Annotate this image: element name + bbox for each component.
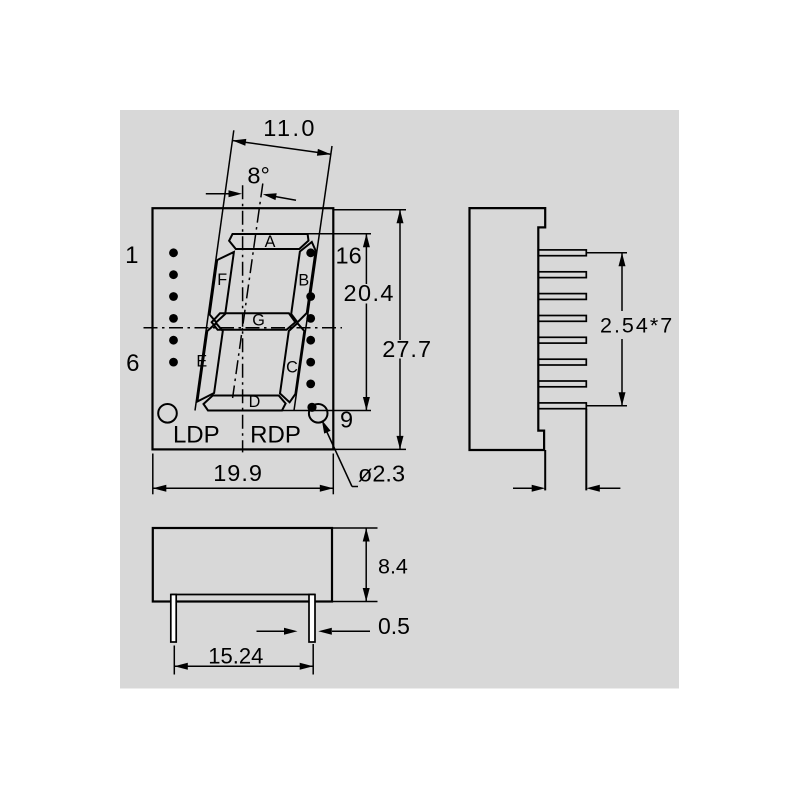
- vertical centerline: [242, 185, 244, 452]
- dim 0.5 left arrow: [257, 630, 285, 632]
- dim 11.0 right extension line: [294, 146, 332, 411]
- svg-text:F: F: [217, 271, 227, 289]
- dim 2.54x7 dimension line: [621, 253, 623, 311]
- LDP circle: [158, 404, 177, 423]
- side view pin width left arrow: [513, 487, 533, 489]
- gray drawing panel: [120, 110, 679, 689]
- side view pins 1-8: [538, 250, 586, 409]
- segment B: [291, 242, 315, 322]
- svg-text:G: G: [252, 312, 265, 330]
- dim 15.24 left extension line: [173, 646, 175, 675]
- dim 19.9 left extension line: [152, 454, 154, 495]
- dim 8.4 dimension line: [365, 528, 367, 602]
- svg-text:27.7: 27.7: [382, 336, 432, 362]
- side view body outline: [470, 208, 546, 450]
- svg-text:19.9: 19.9: [213, 460, 263, 486]
- svg-text:16: 16: [336, 242, 362, 268]
- dim 2.54x7 bottom extension line: [586, 405, 627, 407]
- svg-text:1: 1: [125, 242, 138, 269]
- svg-text:B: B: [298, 272, 309, 290]
- segment G: [212, 313, 296, 330]
- segment F: [210, 252, 234, 322]
- bottom view inner bottom line: [171, 594, 315, 596]
- front view right pin dots (pins 16 and 13-10): [306, 248, 315, 388]
- dim 15.24 dimension line: [174, 665, 313, 667]
- segment C: [280, 323, 304, 402]
- bottom view right pin: [309, 595, 315, 643]
- bottom view left pin: [171, 595, 176, 643]
- segment D: [204, 396, 286, 411]
- svg-text:RDP: RDP: [250, 421, 301, 448]
- svg-text:8°: 8°: [247, 162, 269, 188]
- dim 8.4 top extension line: [333, 527, 378, 529]
- dim 20.4 top extension line: [233, 233, 372, 235]
- svg-text:ø2.3: ø2.3: [358, 460, 405, 486]
- svg-text:6: 6: [126, 350, 139, 377]
- bottom view body outline: [153, 528, 332, 602]
- slanted digit centerline: [233, 184, 263, 399]
- svg-text:2.54*7: 2.54*7: [600, 314, 674, 338]
- segment E: [197, 323, 222, 401]
- dim 2.54x7 top extension line: [586, 252, 627, 254]
- svg-text:D: D: [249, 393, 261, 411]
- svg-text:LDP: LDP: [173, 421, 220, 448]
- dim 27.7 bottom extension line: [333, 448, 406, 450]
- dim 19.9 right extension line: [332, 454, 334, 495]
- dim dia2.3 leader line: [326, 430, 352, 487]
- dim 20.4 bottom extension line: [208, 410, 371, 412]
- RDP circle: [309, 404, 328, 423]
- side view bent pin left edge: [544, 450, 546, 490]
- svg-text:11.0: 11.0: [263, 115, 317, 141]
- pin 9 dot: [307, 403, 316, 412]
- front view package outline: [153, 208, 334, 449]
- dim 27.7 top extension line: [333, 209, 406, 211]
- horizontal centerline: [144, 327, 343, 329]
- dim 11.0 dimension line: [232, 141, 330, 155]
- side view pin width right arrow: [598, 487, 620, 489]
- dim 19.9 dimension line: [153, 487, 333, 489]
- svg-text:A: A: [265, 233, 276, 251]
- svg-text:C: C: [286, 359, 298, 377]
- svg-text:20.4: 20.4: [344, 280, 395, 306]
- dim 20.4 dimension line: [365, 234, 367, 284]
- front view left pin dots (pins 1-6): [169, 248, 178, 366]
- side view bent pin right edge: [585, 409, 587, 491]
- dim 8deg left arrow: [206, 193, 230, 195]
- dim 27.7 dimension line: [399, 210, 401, 340]
- dim 8.4 bottom extension line: [333, 601, 378, 603]
- svg-text:0.5: 0.5: [378, 613, 410, 639]
- dim 11.0 left extension line: [195, 130, 234, 410]
- dim 8deg right arrow: [266, 195, 296, 200]
- dim 15.24 right extension line: [312, 644, 314, 675]
- dim 0.5 right arrow: [332, 630, 370, 632]
- svg-text:8.4: 8.4: [378, 555, 408, 579]
- segment A: [229, 234, 308, 249]
- svg-text:15.24: 15.24: [208, 644, 263, 669]
